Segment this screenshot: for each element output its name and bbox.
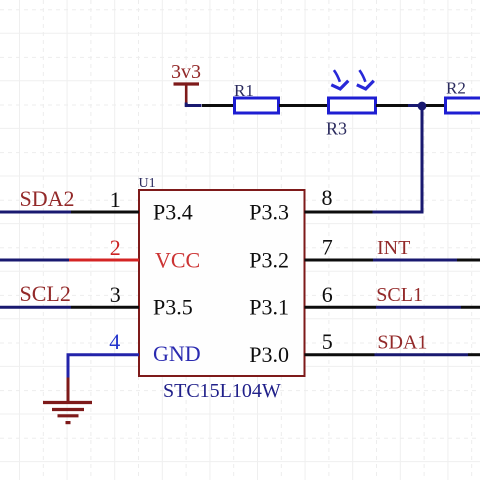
svg-text:SDA2: SDA2 bbox=[20, 186, 75, 211]
svg-text:1: 1 bbox=[110, 187, 121, 212]
ground symbol bbox=[43, 403, 92, 423]
wire navy SCL2 left bbox=[0, 306, 71, 309]
svg-text:8: 8 bbox=[322, 185, 333, 210]
wire navy into junction bbox=[408, 104, 422, 107]
svg-text:3v3: 3v3 bbox=[171, 61, 201, 83]
light arrow 1 on R3 bbox=[331, 70, 348, 89]
svg-text:P3.0: P3.0 bbox=[249, 342, 289, 367]
wire black SDA1 right bbox=[468, 353, 480, 356]
wire black SCL1 right bbox=[461, 306, 480, 309]
svg-text:P3.5: P3.5 bbox=[153, 294, 193, 319]
wire navy SDA1 bbox=[375, 353, 469, 356]
svg-text:GND: GND bbox=[153, 341, 201, 366]
svg-text:P3.2: P3.2 bbox=[249, 247, 289, 272]
wire black R1 to R3 bbox=[279, 104, 328, 107]
svg-text:INT: INT bbox=[377, 237, 410, 259]
svg-text:SCL1: SCL1 bbox=[376, 284, 423, 306]
light arrow 2 on R3 bbox=[357, 70, 374, 89]
power port 3v3 bar symbol bbox=[174, 84, 200, 104]
svg-text:SDA1: SDA1 bbox=[377, 332, 427, 354]
wire navy SCL1 bbox=[376, 306, 461, 309]
resistor R3 (photoresistor) bbox=[329, 98, 376, 113]
svg-text:R3: R3 bbox=[326, 119, 347, 139]
svg-text:SCL2: SCL2 bbox=[20, 281, 71, 306]
wire navy SDA2 left bbox=[0, 211, 71, 214]
wire navy elbow from 3v3 bbox=[186, 103, 201, 106]
wire blue pin4 GND elbow bbox=[68, 355, 139, 379]
svg-text:VCC: VCC bbox=[155, 247, 200, 272]
svg-text:P3.3: P3.3 bbox=[249, 199, 289, 224]
svg-text:2: 2 bbox=[110, 235, 121, 260]
wire black R3 to junction bbox=[376, 104, 408, 107]
svg-text:STC15L104W: STC15L104W bbox=[163, 380, 281, 402]
wire black pin8 bbox=[305, 211, 373, 214]
power port 3v3 label bbox=[171, 61, 201, 83]
wire black pin1 bbox=[71, 211, 139, 214]
svg-text:R2: R2 bbox=[446, 79, 466, 98]
resistor R2 bbox=[446, 98, 480, 113]
junction node bbox=[418, 102, 427, 111]
wire maroon to ground bbox=[67, 378, 70, 402]
svg-text:3: 3 bbox=[110, 282, 121, 307]
wire black 3v3 to R1 bbox=[202, 104, 234, 107]
wire black pin5 bbox=[305, 353, 375, 356]
wire navy INT bbox=[373, 259, 457, 262]
svg-text:4: 4 bbox=[109, 329, 120, 354]
svg-text:R1: R1 bbox=[234, 81, 254, 100]
resistor R1 bbox=[235, 98, 279, 113]
svg-text:P3.4: P3.4 bbox=[153, 199, 193, 224]
svg-text:5: 5 bbox=[322, 329, 333, 354]
wire black pin7 bbox=[305, 259, 374, 262]
wire black INT right bbox=[457, 259, 480, 262]
wire black pin6 bbox=[305, 306, 377, 309]
svg-text:P3.1: P3.1 bbox=[249, 294, 289, 319]
svg-text:U1: U1 bbox=[139, 176, 156, 191]
wire navy VCC left bbox=[0, 259, 69, 262]
wire navy vertical from junction to pin8 bbox=[372, 106, 423, 212]
wire black pin3 bbox=[71, 306, 139, 309]
wire black junction to R2 bbox=[426, 104, 445, 107]
svg-text:6: 6 bbox=[322, 282, 333, 307]
IC U1 body bbox=[139, 190, 305, 376]
wire red pin2 VCC bbox=[69, 259, 139, 262]
svg-text:7: 7 bbox=[322, 234, 333, 259]
